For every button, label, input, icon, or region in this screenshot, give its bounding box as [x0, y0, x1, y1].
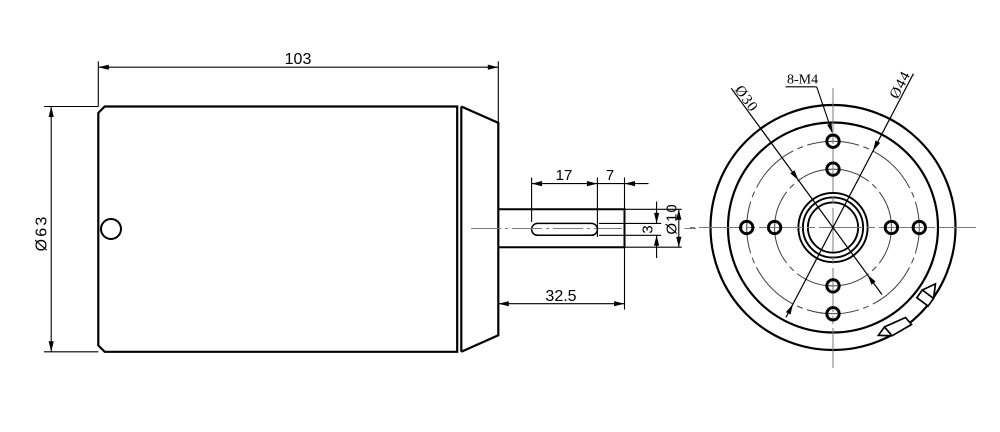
dim 7 line: [597, 183, 624, 185]
dim Ø10 line: [678, 209, 680, 247]
svg-text:Ø10: Ø10: [664, 203, 681, 234]
dim 3 extension lines: [599, 222, 661, 224]
dim 32.5 extension line: [624, 178, 626, 310]
8 x M4 tapped holes: [741, 221, 753, 233]
svg-text:7: 7: [606, 167, 614, 184]
shaft centerline: [471, 228, 622, 230]
svg-text:8-M4: 8-M4: [787, 73, 818, 88]
end-cap joint line: [460, 107, 462, 352]
dim 103 line: [98, 66, 498, 68]
svg-text:103: 103: [285, 51, 312, 68]
dim Ø10 extension lines: [625, 208, 682, 210]
dim 103 extension lines: [97, 61, 99, 106]
Ø44 leader line: [786, 74, 913, 318]
keyway flat slot: [532, 223, 598, 235]
horizontal centerline: [690, 227, 976, 229]
svg-text:17: 17: [556, 167, 573, 184]
svg-text:3: 3: [640, 225, 657, 233]
Ø30 leader line: [731, 88, 882, 294]
dim 17 extension lines: [531, 178, 533, 223]
8-M4 underline: [786, 86, 817, 88]
dim 32.5 line: [498, 303, 624, 305]
rotation arrow CW: [917, 284, 936, 306]
vent hole on housing: [101, 219, 121, 239]
Ø44 bolt circle (dashed): [747, 141, 920, 314]
dim 3 arrows: [656, 202, 658, 224]
svg-text:Ø63: Ø63: [34, 215, 51, 252]
shaft outline: [498, 209, 624, 247]
dim Ø63 line: [50, 107, 52, 352]
svg-text:32.5: 32.5: [545, 288, 576, 305]
dim 17 line: [532, 183, 598, 185]
end view rim circle: [728, 123, 938, 333]
rotation arrow CCW: [878, 318, 911, 336]
Ø30 bolt circle (dashed): [775, 169, 892, 286]
vertical centerline: [832, 88, 834, 368]
8-M4 leader: [817, 87, 832, 130]
dim Ø63 extension lines: [44, 106, 98, 108]
tapered end bell: [461, 107, 498, 352]
end view outer circle: [711, 105, 956, 350]
motor body side view outline: [98, 107, 457, 352]
shaft boss rings: [798, 193, 867, 262]
